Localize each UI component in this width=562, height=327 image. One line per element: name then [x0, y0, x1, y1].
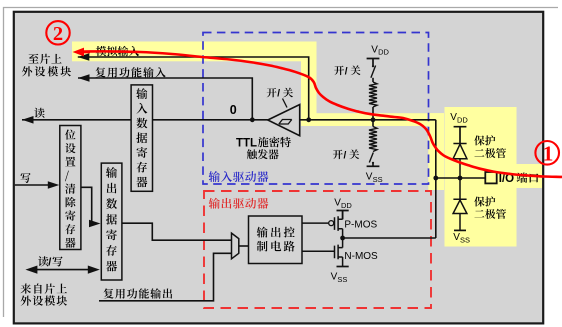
- label: protection diode upper line1: [474, 135, 484, 145]
- schmitt trigger: [268, 105, 300, 136]
- label: alternate function output: [104, 288, 114, 298]
- svg-text:SS: SS: [460, 236, 470, 245]
- svg-text:2: 2: [53, 23, 63, 45]
- highlight band: vertical at analog line: [301, 42, 317, 127]
- VDD rail bar (P-MOS source): [337, 211, 349, 220]
- highlight band: analog input top: [72, 42, 317, 62]
- svg-text:/: /: [345, 66, 348, 77]
- wire: alternate function input: [78, 78, 252, 120]
- label: on/off (pull-up): [334, 66, 344, 76]
- svg-text:SS: SS: [337, 275, 347, 284]
- node: diode junction: [458, 176, 463, 181]
- label: from on-chip peripherals line2: [21, 296, 31, 306]
- label: from on-chip peripherals line1: [21, 284, 31, 294]
- svg-text:N-MOS: N-MOS: [344, 251, 378, 262]
- output control circuit box: [249, 216, 303, 264]
- svg-text:DD: DD: [378, 48, 389, 57]
- label: to on-chip peripherals line1: [28, 54, 38, 64]
- transistor P-MOS: [302, 211, 343, 239]
- svg-text:/: /: [48, 257, 51, 269]
- protection diode D1 (to VDD): [453, 144, 467, 179]
- highlight box: I/O port label: [517, 164, 543, 188]
- annotation: circled 2: [46, 21, 69, 44]
- wire: analog input: [78, 57, 309, 120]
- wire: read/write double arrow: [34, 269, 90, 271]
- schmitt hysteresis symbol: [279, 120, 292, 125]
- VSS rail bar (pull-down): [367, 165, 380, 167]
- svg-text:1: 1: [543, 141, 554, 165]
- label: TTL schmitt trigger line2: [247, 149, 257, 159]
- label: on/off (pull-down): [333, 150, 343, 160]
- label: input data register (vertical): [136, 88, 147, 99]
- label: read/write: [38, 256, 48, 266]
- label: output data register (vertical): [106, 167, 117, 178]
- node: analog tap junction: [306, 117, 311, 122]
- input driver dashed box: [203, 33, 429, 185]
- wire: MOS drain output: [343, 237, 436, 239]
- highlight band: horizontal main line: [301, 113, 444, 126]
- label: protection diode lower line1: [474, 196, 484, 206]
- svg-text:DD: DD: [341, 201, 352, 210]
- input data register box: [131, 85, 152, 191]
- label: read: [34, 108, 44, 118]
- wire: write line: [15, 184, 49, 186]
- label: alternate function input: [96, 67, 106, 77]
- transistor N-MOS: [302, 238, 343, 267]
- node: MOS drain junction: [340, 236, 345, 241]
- wire: vertical to I/O line and MOS output: [435, 120, 437, 238]
- label: input driver (blue): [209, 171, 220, 182]
- protection diode D2 (to VSS): [453, 178, 467, 230]
- highlight band: vertical to I/O line: [428, 113, 444, 190]
- label: output driver (red): [209, 198, 220, 209]
- VSS rail bar (lower diode): [454, 229, 466, 231]
- mux selector: [232, 233, 239, 259]
- wire: mux to output control: [239, 245, 249, 247]
- annotation: red arrowhead: [73, 48, 85, 57]
- wire: schmitt output to pin column: [300, 119, 436, 121]
- svg-text:/: /: [344, 150, 347, 161]
- annotation: circled 1: [535, 141, 559, 165]
- svg-text:0: 0: [230, 103, 237, 117]
- switch SW2 (pull-down on/off): [369, 153, 373, 163]
- schmitt on/off pointer: [283, 99, 288, 108]
- svg-text:SS: SS: [373, 175, 383, 184]
- output driver dashed box: [204, 191, 431, 308]
- label: protection diode upper line2: [474, 149, 484, 156]
- svg-text:DD: DD: [457, 116, 468, 125]
- node: pull resistor junction: [371, 117, 376, 122]
- I/O pad square: [485, 172, 496, 183]
- VDD rail bar (upper diode): [454, 127, 467, 144]
- output data register box: [101, 163, 122, 280]
- label: analog input: [96, 46, 107, 56]
- wire: input data register to schmitt trigger: [153, 119, 268, 121]
- resistor: pull-up: [372, 78, 374, 82]
- label: on/off (schmitt): [267, 88, 277, 98]
- highlight box: protection diodes: [445, 107, 517, 247]
- VDD rail bar (pull-up): [367, 59, 380, 66]
- node: corner junction: [433, 176, 438, 181]
- annotation: red analog path curve: [84, 51, 562, 177]
- switch SW1 (pull-up on/off): [371, 66, 376, 78]
- VSS rail bar (N-MOS source): [337, 266, 349, 268]
- wire: read line to input data register: [22, 119, 131, 121]
- wire: resistor to junction: [372, 107, 374, 127]
- label: to on-chip peripherals line2: [22, 66, 32, 76]
- label: output control circuit: [257, 227, 268, 238]
- bit set/clear register box: [60, 126, 81, 250]
- svg-text:/: /: [277, 89, 280, 100]
- node: AFI tap junction: [250, 117, 255, 122]
- svg-text:P-MOS: P-MOS: [344, 220, 377, 231]
- label: bit set/clear register (vertical): [65, 129, 76, 139]
- wire: bit set/clear to output register: [81, 187, 93, 223]
- resistor: pull-down: [369, 127, 377, 152]
- wire: I/O pad line: [436, 177, 486, 179]
- svg-text:TTL: TTL: [236, 137, 257, 149]
- wire: switch to VSS: [372, 163, 374, 167]
- wire: alternate function output: [99, 253, 232, 300]
- label: write: [21, 173, 31, 183]
- wire: output data register to mux: [121, 223, 231, 240]
- label: protection diode lower line2: [474, 210, 484, 217]
